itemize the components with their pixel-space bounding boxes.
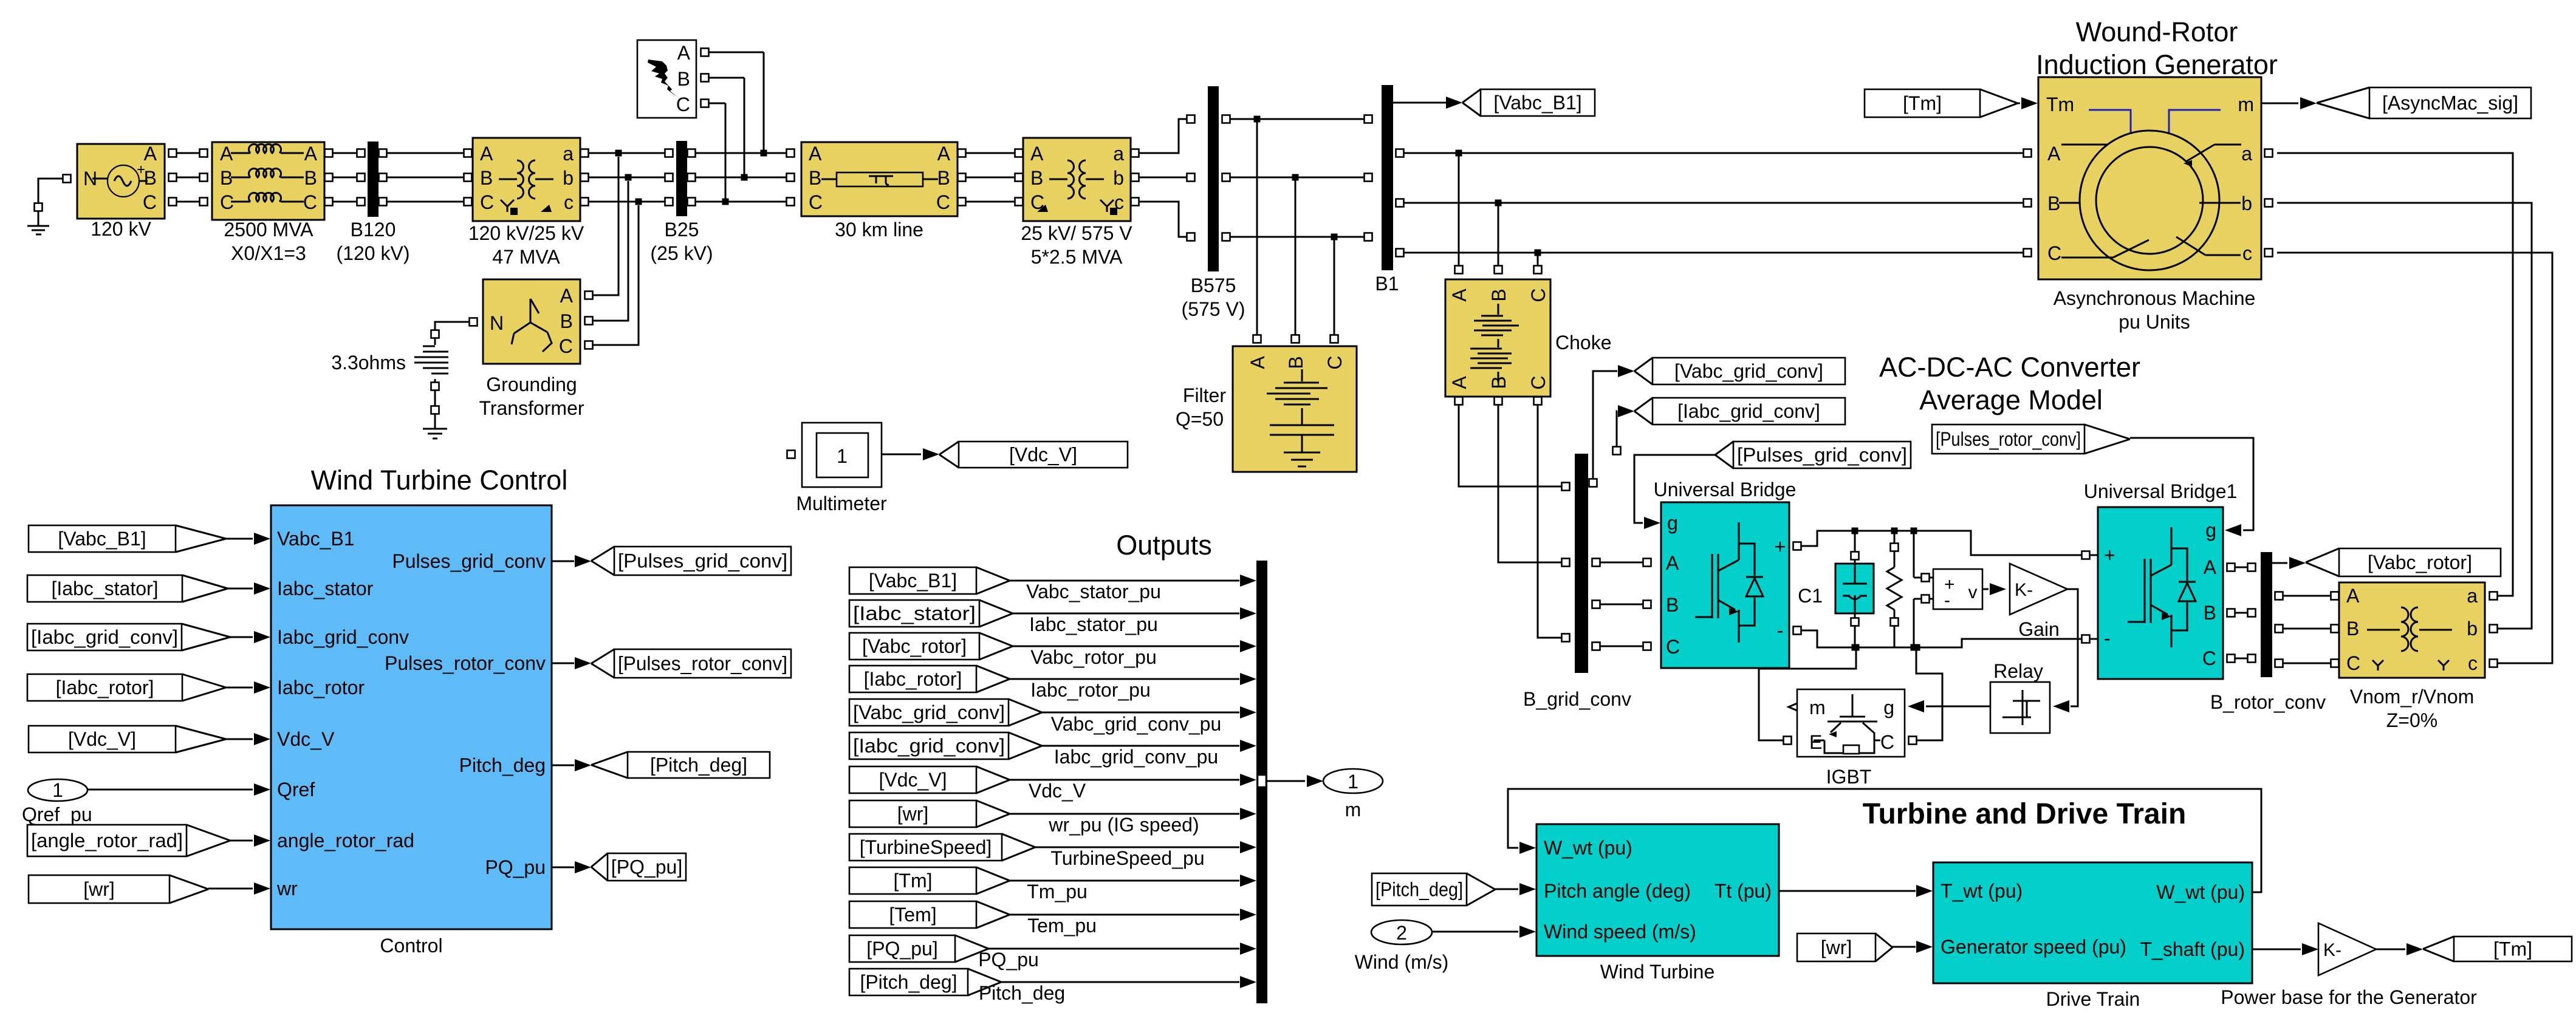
from tag Iabc_grid_conv (control) bbox=[27, 624, 182, 650]
svg-text:A: A bbox=[1247, 356, 1269, 369]
feedback wire W_wt to wind turbine bbox=[1508, 789, 2261, 892]
wire B_grid_conv to Vabc_grid_conv goto bbox=[1589, 479, 1597, 487]
svg-text:C: C bbox=[676, 94, 690, 115]
svg-text:AC-DC-AC Converter: AC-DC-AC Converter bbox=[1879, 352, 2140, 383]
source impedance block 2500 MVA X0/X1=3 bbox=[212, 142, 324, 220]
svg-text:[Pulses_grid_conv]: [Pulses_grid_conv] bbox=[618, 550, 787, 572]
voltage source block 120 kV bbox=[77, 144, 165, 219]
wire B1 B to machine B bbox=[1396, 199, 1404, 207]
wire constant to control Qref bbox=[87, 789, 253, 791]
svg-text:N: N bbox=[490, 312, 504, 334]
goto tag Pulses_rotor_conv bbox=[614, 649, 791, 678]
svg-text:c: c bbox=[2468, 652, 2478, 674]
svg-text:Power base for the Generator: Power base for the Generator bbox=[2221, 986, 2477, 1008]
junction fault A tap bbox=[761, 150, 767, 157]
svg-text:C: C bbox=[809, 191, 823, 213]
wire B1 C to machine C bbox=[1396, 249, 1404, 257]
wire B_rotor_conv A to Vnom A bbox=[2275, 592, 2283, 600]
svg-text:B: B bbox=[809, 167, 821, 189]
wire Pitch_deg to wind turbine bbox=[1495, 889, 1518, 890]
svg-text:Qref: Qref bbox=[277, 779, 315, 800]
svg-text:2500 MVA: 2500 MVA bbox=[224, 219, 313, 241]
from tag Vabc_B1 (control) bbox=[29, 525, 176, 552]
wire minus rail to IGBT C bbox=[1913, 644, 1920, 651]
outport 1 (m) bbox=[1323, 769, 1383, 793]
svg-text:v: v bbox=[1968, 582, 1978, 602]
wire UB1 B to B_rotor_conv bbox=[2227, 609, 2235, 617]
svg-text:[wr]: [wr] bbox=[83, 878, 115, 900]
svg-text:[Pulses_grid_conv]: [Pulses_grid_conv] bbox=[1737, 444, 1907, 466]
wire B25 C to 30km line C bbox=[688, 198, 696, 206]
svg-text:a: a bbox=[1113, 143, 1124, 165]
wire [Vabc_B1] to outputs mux bbox=[1010, 580, 1239, 582]
svg-text:C1: C1 bbox=[1798, 585, 1823, 607]
wind turbine block bbox=[1536, 824, 1779, 956]
svg-text:A: A bbox=[2204, 556, 2217, 578]
svg-text:(575 V): (575 V) bbox=[1182, 298, 1245, 320]
svg-text:Universal Bridge1: Universal Bridge1 bbox=[2084, 480, 2238, 502]
svg-text:Z=0%: Z=0% bbox=[2386, 709, 2437, 731]
wire to control Iabc_stator bbox=[228, 588, 253, 590]
svg-text:Pitch angle (deg): Pitch angle (deg) bbox=[1544, 880, 1691, 902]
svg-text:[Iabc_grid_conv]: [Iabc_grid_conv] bbox=[853, 735, 1005, 757]
grounding transformer C wire to bus bbox=[585, 341, 593, 349]
bus bar B_rotor_conv bbox=[2261, 552, 2272, 677]
wire B25 A to 30km line A bbox=[688, 149, 696, 157]
from tag [Tem] (outputs) bbox=[849, 901, 976, 928]
svg-text:wr_pu (IG speed): wr_pu (IG speed) bbox=[1048, 814, 1199, 836]
svg-text:Tem_pu: Tem_pu bbox=[1027, 915, 1097, 937]
svg-text:b: b bbox=[563, 167, 574, 189]
DC plus rail bbox=[1801, 531, 2098, 555]
wire B575 A to B1 with filter tap bbox=[1222, 115, 1230, 123]
svg-text:B: B bbox=[937, 167, 950, 189]
svg-text:B575: B575 bbox=[1191, 275, 1236, 296]
transformer T1 120 kV/25 kV 47 MVA bbox=[473, 138, 580, 221]
svg-text:Vnom_r/Vnom: Vnom_r/Vnom bbox=[2350, 686, 2475, 708]
svg-text:Vdc_V: Vdc_V bbox=[1029, 780, 1086, 802]
svg-text:2: 2 bbox=[1396, 922, 1407, 944]
svg-text:Iabc_grid_conv_pu: Iabc_grid_conv_pu bbox=[1054, 746, 1218, 768]
svg-text:B: B bbox=[2204, 602, 2216, 624]
wire [Vabc_grid_conv] to outputs mux bbox=[1042, 712, 1239, 714]
wire B_rotor_conv C to Vnom C bbox=[2275, 660, 2283, 667]
svg-text:C: C bbox=[559, 335, 573, 357]
svg-text:A: A bbox=[1030, 143, 1044, 165]
svg-text:T_wt (pu): T_wt (pu) bbox=[1941, 880, 2023, 902]
relay block bbox=[1990, 682, 2050, 733]
wire B_grid_conv A to Universal Bridge A bbox=[1592, 559, 1600, 567]
transformer T2 25 kV/575 V 5*2.5 MVA bbox=[1023, 138, 1131, 221]
wire B1 to Vabc_B1 goto bbox=[1393, 102, 1447, 104]
svg-text:C: C bbox=[143, 191, 157, 213]
ground G2 bbox=[434, 414, 436, 429]
svg-text:A: A bbox=[560, 285, 574, 307]
svg-text:a: a bbox=[563, 143, 574, 165]
svg-text:Vdc_V: Vdc_V bbox=[277, 728, 335, 750]
svg-text:g: g bbox=[1883, 697, 1894, 718]
goto tag Vdc_V bbox=[959, 442, 1128, 468]
svg-text:Iabc_rotor_pu: Iabc_rotor_pu bbox=[1030, 679, 1150, 701]
svg-text:Multimeter: Multimeter bbox=[796, 493, 887, 514]
svg-text:[Pulses_rotor_conv]: [Pulses_rotor_conv] bbox=[618, 653, 787, 675]
goto tag Vabc_grid_conv bbox=[1653, 358, 1845, 384]
wire 2500MVA B to B120 bbox=[325, 174, 333, 182]
svg-text:Universal Bridge: Universal Bridge bbox=[1654, 479, 1797, 500]
bus bar B_grid_conv bbox=[1575, 454, 1588, 673]
DC minus rail bbox=[1801, 630, 2098, 647]
svg-text:B: B bbox=[1030, 167, 1043, 189]
svg-text:[Vdc_V]: [Vdc_V] bbox=[879, 769, 947, 791]
goto tag AsyncMac_sig bbox=[2369, 87, 2531, 118]
from tag wr (turbine) bbox=[1797, 933, 1875, 961]
svg-text:[Tm]: [Tm] bbox=[2493, 938, 2532, 960]
svg-text:TurbineSpeed_pu: TurbineSpeed_pu bbox=[1050, 847, 1204, 869]
svg-text:1: 1 bbox=[1348, 771, 1358, 793]
svg-text:Vabc_rotor_pu: Vabc_rotor_pu bbox=[1030, 646, 1157, 668]
wire Pulses_rotor_conv to UB1 g bbox=[2130, 438, 2253, 530]
wire [Iabc_rotor] to outputs mux bbox=[1010, 678, 1239, 680]
wire to control Iabc_rotor bbox=[226, 687, 253, 689]
wire [Iabc_stator] to outputs mux bbox=[1013, 613, 1239, 615]
wire source B to 2500MVA B bbox=[169, 174, 177, 182]
svg-text:PQ_pu: PQ_pu bbox=[485, 856, 546, 878]
junction choke B bbox=[1495, 200, 1502, 206]
from tag Tm bbox=[1865, 89, 1980, 117]
svg-text:C: C bbox=[480, 191, 494, 213]
wire branch to ground G2 bbox=[434, 391, 436, 406]
Universal Bridge1 block bbox=[2098, 507, 2223, 679]
grounding transformer block bbox=[483, 279, 580, 364]
wire B_grid_conv C to Universal Bridge C bbox=[1592, 643, 1600, 650]
wire [Iabc_grid_conv] to outputs mux bbox=[1042, 745, 1239, 747]
svg-text:Relay: Relay bbox=[1993, 660, 2043, 682]
wire B_rotor_conv B to Vnom B bbox=[2275, 625, 2283, 633]
bus bar B575 bbox=[1208, 86, 1219, 271]
capacitor C1 bbox=[1854, 531, 1856, 551]
svg-text:Pulses_grid_conv: Pulses_grid_conv bbox=[392, 550, 546, 572]
IGBT E port bbox=[1784, 737, 1792, 745]
three-phase fault block bbox=[637, 40, 696, 118]
goto tag Vabc_B1 bbox=[1481, 89, 1595, 116]
svg-text:Generator speed (pu): Generator speed (pu) bbox=[1941, 936, 2126, 958]
svg-text:Induction Generator: Induction Generator bbox=[2036, 49, 2278, 80]
svg-text:Iabc_rotor: Iabc_rotor bbox=[277, 677, 365, 698]
goto tag Pulses_grid_conv bbox=[614, 547, 791, 575]
junction T1a/groundingA bbox=[615, 150, 622, 157]
wire Vnom c to machine rotor c bbox=[2490, 660, 2498, 667]
wire B120 A to transformer T1 A bbox=[379, 149, 387, 157]
svg-text:b: b bbox=[2241, 193, 2252, 214]
svg-text:Grounding: Grounding bbox=[486, 374, 577, 395]
outputs mux bar bbox=[1256, 561, 1267, 1003]
svg-text:A: A bbox=[2047, 143, 2061, 165]
wire control to Pulses_grid_conv goto bbox=[552, 561, 574, 562]
svg-text:[Tm]: [Tm] bbox=[894, 870, 933, 892]
svg-text:X0/X1=3: X0/X1=3 bbox=[231, 242, 306, 264]
wire B575 B to B1 with filter tap bbox=[1222, 174, 1230, 182]
wire B1 A to machine A bbox=[1396, 149, 1404, 157]
svg-text:[Iabc_rotor]: [Iabc_rotor] bbox=[864, 668, 962, 690]
svg-text:Outputs: Outputs bbox=[1116, 530, 1212, 561]
wire [Pitch_deg] to outputs mux bbox=[1001, 981, 1239, 983]
svg-text:Tm: Tm bbox=[2046, 94, 2074, 115]
voltage measurement taps bbox=[1913, 531, 1915, 578]
resistor R across DC bus bbox=[1894, 531, 1896, 543]
svg-text:A: A bbox=[1666, 552, 1679, 574]
svg-text:[angle_rotor_rad]: [angle_rotor_rad] bbox=[31, 830, 183, 851]
svg-text:A: A bbox=[937, 143, 951, 165]
svg-text:Iabc_stator_pu: Iabc_stator_pu bbox=[1029, 613, 1158, 635]
svg-text:IGBT: IGBT bbox=[1826, 766, 1872, 788]
svg-text:[Iabc_grid_conv]: [Iabc_grid_conv] bbox=[1677, 400, 1820, 422]
wire B_rotor_conv to Vabc_rotor goto bbox=[2272, 562, 2287, 564]
wire minus rail to IGBT E bbox=[1853, 644, 1860, 651]
from tag angle_rotor_rad (control) bbox=[27, 825, 187, 856]
svg-text:Wind (m/s): Wind (m/s) bbox=[1355, 951, 1449, 973]
svg-text:Choke: Choke bbox=[1555, 332, 1612, 353]
svg-text:[Tm]: [Tm] bbox=[1903, 92, 1942, 114]
svg-text:Average Model: Average Model bbox=[1919, 384, 2103, 415]
wire to control Vabc_B1 bbox=[226, 538, 253, 540]
svg-text:B: B bbox=[2346, 618, 2359, 640]
wire to control wr bbox=[208, 888, 253, 890]
svg-text:A: A bbox=[809, 143, 822, 165]
Universal Bridge block bbox=[1661, 502, 1789, 668]
svg-text:Gain: Gain bbox=[2018, 618, 2060, 640]
goto tag Tm (turbine) bbox=[2454, 937, 2572, 961]
svg-text:[Pitch_deg]: [Pitch_deg] bbox=[1375, 879, 1463, 901]
wire B_grid_conv to Iabc_grid_conv goto bbox=[1613, 447, 1621, 455]
fault port C wire bbox=[701, 100, 709, 107]
svg-text:[Vabc_B1]: [Vabc_B1] bbox=[869, 570, 957, 592]
wire [TurbineSpeed] to outputs mux bbox=[1035, 847, 1239, 848]
svg-text:Vabc_stator_pu: Vabc_stator_pu bbox=[1026, 581, 1161, 602]
svg-text:30 km line: 30 km line bbox=[835, 219, 923, 241]
wire UB1 A to B_rotor_conv bbox=[2227, 564, 2235, 572]
svg-text:E: E bbox=[1809, 731, 1822, 753]
from tag [Vdc_V] (outputs) bbox=[849, 766, 976, 793]
svg-text:Iabc_stator: Iabc_stator bbox=[277, 578, 374, 599]
IGBT block bbox=[1797, 689, 1905, 757]
voltage measurement block v bbox=[1933, 569, 1982, 609]
svg-text:[Vabc_B1]: [Vabc_B1] bbox=[58, 528, 146, 550]
wire to control angle_rotor_rad bbox=[230, 840, 253, 842]
wire 30km A to transformer T2 A bbox=[958, 149, 966, 157]
svg-text:B: B bbox=[1666, 594, 1679, 616]
svg-text:Tt (pu): Tt (pu) bbox=[1714, 880, 1772, 902]
svg-text:B: B bbox=[1488, 288, 1510, 301]
goto tag Pitch_deg bbox=[628, 752, 770, 778]
svg-text:-: - bbox=[2104, 627, 2111, 649]
wire 2500MVA C to B120 bbox=[325, 198, 333, 206]
svg-text:C: C bbox=[936, 191, 950, 213]
svg-text:Qref_pu: Qref_pu bbox=[22, 804, 92, 825]
wire Vnom b to machine rotor b bbox=[2490, 625, 2498, 633]
svg-text:[Pitch_deg]: [Pitch_deg] bbox=[860, 971, 957, 993]
svg-text:[Vabc_grid_conv]: [Vabc_grid_conv] bbox=[1674, 360, 1823, 382]
ground G1 bbox=[38, 179, 63, 206]
wire 2500MVA A to B120 bbox=[325, 149, 333, 157]
svg-text:B25: B25 bbox=[665, 219, 699, 241]
wire T1 c to B25 bbox=[581, 198, 589, 206]
grounding transformer N port wire bbox=[470, 318, 478, 326]
machine m output to AsyncMac_sig goto bbox=[2261, 103, 2298, 104]
svg-text:[PQ_pu]: [PQ_pu] bbox=[866, 938, 937, 960]
choke block bbox=[1445, 279, 1550, 397]
wire Vnom a to machine rotor a bbox=[2490, 592, 2498, 600]
junction fault B tap bbox=[741, 174, 748, 181]
control block bbox=[271, 505, 552, 929]
svg-text:47 MVA: 47 MVA bbox=[492, 246, 560, 268]
svg-text:Turbine and Drive Train: Turbine and Drive Train bbox=[1863, 798, 2187, 830]
wire Pulses_grid_conv to g bbox=[1634, 455, 1715, 523]
svg-text:B: B bbox=[304, 167, 317, 189]
junction T1c/groundingC bbox=[635, 199, 642, 205]
from tag [Pitch_deg] (outputs) bbox=[849, 969, 968, 995]
svg-text:Wound-Rotor: Wound-Rotor bbox=[2076, 16, 2238, 47]
svg-text:A: A bbox=[677, 42, 691, 64]
from tag [Vabc_grid_conv] (outputs) bbox=[849, 699, 1009, 726]
svg-text:[Tem]: [Tem] bbox=[889, 904, 936, 926]
IGBT C port bbox=[1909, 737, 1917, 745]
wire T1 a to B25 with grounding-transformer tap A bbox=[581, 149, 589, 157]
svg-text:C: C bbox=[2047, 242, 2061, 264]
svg-text:[Iabc_grid_conv]: [Iabc_grid_conv] bbox=[31, 626, 178, 648]
Universal Bridge - port bbox=[1793, 627, 1801, 635]
svg-text:Q=50: Q=50 bbox=[1176, 408, 1224, 430]
wire [wr] to outputs mux bbox=[1010, 813, 1239, 815]
svg-text:[Vabc_grid_conv]: [Vabc_grid_conv] bbox=[853, 701, 1005, 723]
svg-text:C: C bbox=[303, 191, 317, 213]
wire T_shaft to gain bbox=[2252, 949, 2301, 950]
from tag Iabc_stator (control) bbox=[27, 575, 182, 602]
wire Tt to Drive Train T_wt bbox=[1779, 890, 1916, 892]
svg-text:Transformer: Transformer bbox=[479, 397, 584, 419]
svg-text:[Vdc_V]: [Vdc_V] bbox=[68, 728, 136, 750]
asynchronous machine block bbox=[2038, 77, 2261, 279]
svg-text:T_shaft (pu): T_shaft (pu) bbox=[2140, 938, 2245, 960]
wire B120 B to transformer T1 B bbox=[379, 174, 387, 182]
filter block Q=50 bbox=[1233, 346, 1357, 472]
30 km line block bbox=[801, 142, 957, 216]
wire B_grid_conv B to Universal Bridge B bbox=[1592, 601, 1600, 609]
from tag Pulses_rotor_conv bbox=[1932, 425, 2084, 454]
svg-text:25 kV/ 575 V: 25 kV/ 575 V bbox=[1021, 222, 1132, 244]
from tag [Iabc_rotor] (outputs) bbox=[849, 666, 976, 692]
goto tag PQ_pu bbox=[608, 853, 686, 881]
junction fault C tap bbox=[722, 199, 729, 205]
wire control to PQ_pu goto bbox=[552, 867, 574, 868]
svg-text:b: b bbox=[1113, 167, 1124, 189]
from tag Pulses_grid_conv bbox=[1733, 442, 1911, 468]
svg-text:C: C bbox=[2202, 647, 2216, 669]
svg-text:B: B bbox=[677, 68, 690, 90]
wire Relay to IGBT g bbox=[1926, 706, 1990, 708]
wire Tm to machine bbox=[2018, 103, 2020, 104]
svg-text:PQ_pu: PQ_pu bbox=[978, 949, 1039, 971]
svg-text:[wr]: [wr] bbox=[897, 803, 929, 825]
constant Wind m/s value 2 bbox=[1371, 920, 1432, 944]
bus bar B25 bbox=[676, 141, 687, 216]
wire 30km B to transformer T2 B bbox=[958, 174, 966, 182]
svg-text:Tm_pu: Tm_pu bbox=[1027, 881, 1088, 902]
svg-text:K-: K- bbox=[2015, 580, 2033, 600]
outputs mux output notch bbox=[1258, 775, 1266, 787]
svg-text:+: + bbox=[2104, 544, 2115, 566]
svg-text:B: B bbox=[144, 167, 157, 189]
svg-text:[PQ_pu]: [PQ_pu] bbox=[611, 856, 682, 878]
junction T1b/groundingB bbox=[625, 174, 632, 181]
svg-text:+: + bbox=[1775, 536, 1786, 558]
from tag [Iabc_grid_conv] (outputs) bbox=[849, 732, 1009, 759]
svg-text:[Vabc_rotor]: [Vabc_rotor] bbox=[862, 635, 967, 657]
svg-text:B: B bbox=[2047, 193, 2060, 214]
svg-text:[Iabc_stator]: [Iabc_stator] bbox=[853, 602, 976, 624]
svg-text:[Vdc_V]: [Vdc_V] bbox=[1009, 444, 1077, 466]
svg-text:Filter: Filter bbox=[1183, 384, 1226, 406]
svg-text:B_grid_conv: B_grid_conv bbox=[1523, 688, 1631, 710]
wire T1 b to B25 bbox=[581, 174, 589, 182]
bus bar B120 bbox=[368, 142, 379, 217]
svg-text:W_wt (pu): W_wt (pu) bbox=[2156, 881, 2245, 903]
svg-text:m: m bbox=[1809, 697, 1826, 718]
svg-text:g: g bbox=[2205, 519, 2216, 541]
svg-text:A: A bbox=[1448, 288, 1470, 302]
svg-text:Vabc_B1: Vabc_B1 bbox=[277, 528, 355, 550]
wire B575 C to B1 with filter tap bbox=[1222, 233, 1230, 241]
wire to control Vdc_V bbox=[226, 739, 253, 740]
svg-text:b: b bbox=[2467, 618, 2478, 640]
gain block Power base for the Generator bbox=[2318, 923, 2376, 975]
wire [Vabc_rotor] to outputs mux bbox=[1013, 646, 1239, 647]
svg-text:C: C bbox=[1666, 636, 1680, 658]
svg-text:C: C bbox=[1527, 288, 1549, 302]
wire mux to outport m bbox=[1267, 780, 1305, 782]
wire constant 2 to wind turbine bbox=[1432, 931, 1518, 933]
wire [Tem] to outputs mux bbox=[1010, 914, 1239, 916]
svg-text:B: B bbox=[560, 310, 573, 332]
bus bar B1 bbox=[1382, 85, 1393, 270]
junction choke C bbox=[1535, 250, 1541, 256]
transformer Vnom_r/Vnom Z=0% bbox=[2339, 582, 2485, 678]
wire multimeter to Vdc_V goto bbox=[882, 454, 921, 455]
svg-text:3.3ohms: 3.3ohms bbox=[331, 352, 406, 374]
svg-text:5*2.5 MVA: 5*2.5 MVA bbox=[1031, 246, 1123, 268]
filter port squares bbox=[1253, 335, 1261, 343]
svg-text:K-: K- bbox=[2323, 940, 2341, 960]
choke top port squares bbox=[1455, 266, 1463, 274]
wire UB1 C to B_rotor_conv bbox=[2227, 655, 2235, 663]
goto tag Iabc_grid_conv bbox=[1653, 398, 1845, 425]
svg-text:120 kV: 120 kV bbox=[91, 218, 151, 240]
svg-text:C: C bbox=[1527, 375, 1549, 389]
grounding transformer A wire to bus bbox=[585, 292, 593, 299]
wire control to Pitch_deg goto bbox=[552, 765, 574, 766]
svg-text:A: A bbox=[480, 143, 493, 165]
wire source C to 2500MVA C bbox=[169, 198, 177, 206]
svg-text:c: c bbox=[564, 191, 574, 213]
from tag [Vabc_B1] (outputs) bbox=[849, 567, 976, 594]
svg-text:A: A bbox=[2346, 585, 2360, 607]
svg-text:Iabc_grid_conv: Iabc_grid_conv bbox=[277, 626, 409, 648]
svg-text:A: A bbox=[304, 143, 318, 165]
goto tag Vabc_rotor bbox=[2339, 548, 2501, 576]
constant Qref_pu value 1 bbox=[28, 779, 87, 801]
svg-text:Control: Control bbox=[380, 935, 442, 957]
svg-text:C: C bbox=[2346, 652, 2360, 674]
svg-text:B: B bbox=[480, 167, 493, 189]
